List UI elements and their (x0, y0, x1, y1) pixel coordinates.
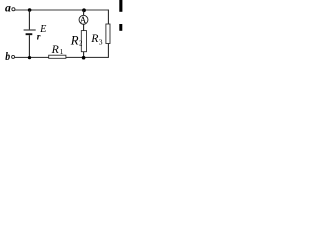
terminal b (12, 55, 15, 58)
wire right rail top lead (107, 10, 109, 25)
svg-text:R: R (70, 33, 79, 47)
svg-text:3: 3 (99, 38, 103, 47)
wire R2 bottom lead (83, 52, 85, 58)
svg-text:b: b (5, 49, 10, 63)
ammeter A (79, 15, 88, 24)
node junction dot top ammeter (82, 8, 86, 12)
wire battery bottom lead (28, 35, 30, 57)
node junction dot top battery (28, 8, 32, 12)
battery E negative plate (26, 33, 33, 35)
wire ammeter to R2 (83, 24, 85, 30)
node junction dot bottom middle (82, 56, 86, 60)
node junction dot bottom battery (28, 56, 31, 59)
resistor R3 (106, 24, 110, 44)
wire top rail (15, 9, 108, 11)
svg-text:1: 1 (60, 47, 64, 56)
battery E positive plate (24, 29, 36, 31)
svg-text:r: r (37, 32, 41, 42)
resistor R1 (49, 55, 66, 58)
cropped text fragment top right (119, 0, 122, 12)
wire ammeter lead (83, 10, 85, 15)
resistor R2 (81, 31, 86, 52)
wire battery top lead (28, 10, 30, 29)
svg-text:A: A (80, 15, 87, 25)
wire right rail bottom lead (107, 44, 109, 58)
svg-text:R: R (51, 44, 59, 56)
svg-text:2: 2 (79, 41, 83, 48)
cropped text fragment right (119, 24, 122, 31)
svg-text:a: a (5, 1, 11, 15)
wire bottom rail (15, 56, 109, 58)
terminal a (12, 8, 15, 11)
